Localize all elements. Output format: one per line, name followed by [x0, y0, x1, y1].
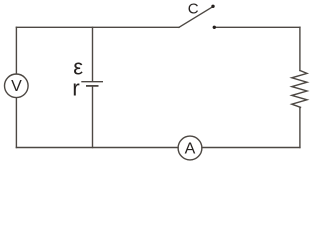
svg-text:A: A	[185, 141, 196, 158]
wire left side top	[15, 27, 17, 74]
wire battery branch top	[92, 27, 94, 81]
switch contact dot upper	[211, 5, 214, 8]
wire bottom-left segment	[16, 147, 178, 149]
voltmeter V circle	[4, 74, 28, 98]
ammeter A circle	[178, 136, 202, 160]
battery short plate	[87, 85, 98, 87]
wire bottom-right segment	[202, 147, 300, 149]
resistor R zigzag	[292, 71, 307, 108]
svg-text:C: C	[188, 1, 199, 18]
svg-text:r: r	[72, 76, 80, 101]
wire left side bottom	[15, 98, 17, 148]
svg-text:V: V	[11, 78, 22, 95]
switch contact dot lower	[213, 26, 216, 29]
wire top-left segment	[16, 26, 179, 28]
switch C blade	[179, 7, 212, 27]
wire right side bottom	[299, 107, 301, 147]
wire top-right segment	[216, 26, 300, 28]
battery long plate (emf)	[82, 81, 102, 83]
wire battery branch bottom	[92, 86, 94, 148]
wire right side top	[299, 27, 301, 70]
